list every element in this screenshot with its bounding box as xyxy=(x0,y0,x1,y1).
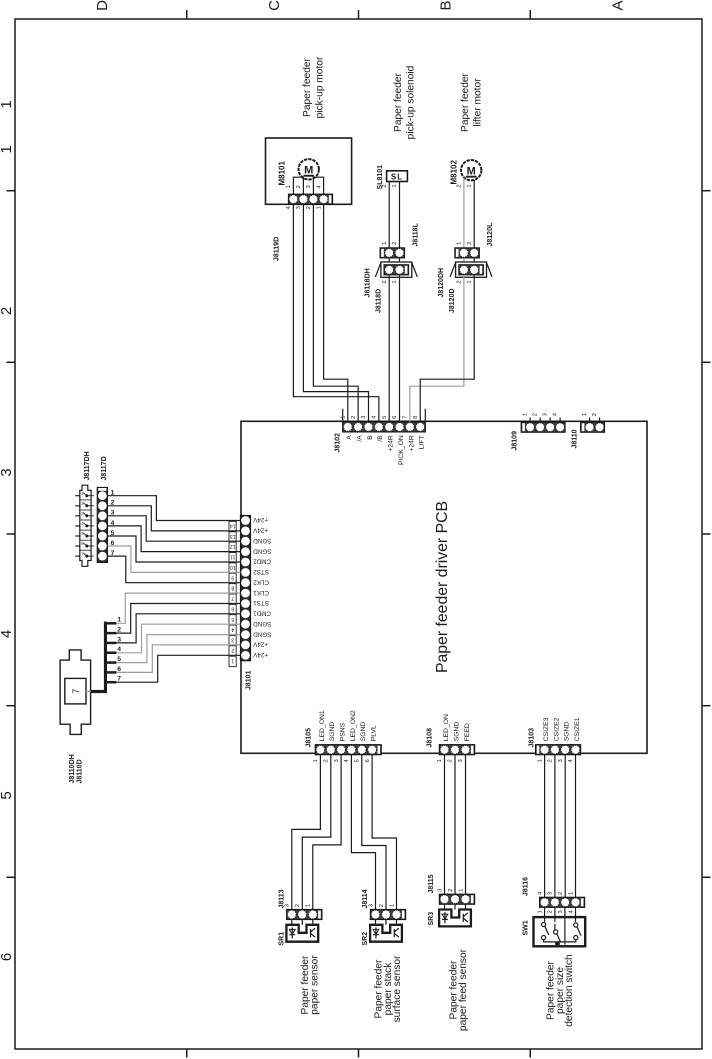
wire J8105 pin1 to sensor xyxy=(292,755,321,910)
wire J8120D pin1 to J8102 pin8 xyxy=(420,275,474,422)
svg-text:J8120DH: J8120DH xyxy=(438,268,445,298)
svg-text:SL: SL xyxy=(391,172,403,181)
svg-text:2: 2 xyxy=(117,627,121,634)
svg-text:1: 1 xyxy=(457,242,463,245)
connector J8110D terminal block xyxy=(104,622,117,694)
svg-text:+24R: +24R xyxy=(388,435,395,452)
wire J8110D pin2 to J8101 pin6 xyxy=(116,604,240,634)
svg-text:1: 1 xyxy=(117,617,121,624)
connector J8119D xyxy=(274,194,333,261)
svg-text:2: 2 xyxy=(392,242,398,245)
svg-text:SGND: SGND xyxy=(453,722,460,742)
svg-text:surface sensor: surface sensor xyxy=(392,955,403,1022)
wire J8117D pin1 to J8101 pin14 xyxy=(108,496,241,521)
svg-text:C: C xyxy=(266,0,283,11)
svg-text:6: 6 xyxy=(231,605,234,611)
svg-text:CSIZE2: CSIZE2 xyxy=(553,717,560,741)
connector J8113 xyxy=(278,889,322,919)
pin numbers J8118D 2-1 xyxy=(382,280,398,283)
svg-text:SGND: SGND xyxy=(564,722,571,742)
svg-text:1: 1 xyxy=(313,759,319,762)
paper deck unit box (7) J8110DH xyxy=(60,650,107,784)
svg-text:J8119D: J8119D xyxy=(274,237,281,261)
svg-text:+24V: +24V xyxy=(252,651,268,658)
svg-text:detection switch: detection switch xyxy=(564,954,575,1026)
svg-text:pick-up motor: pick-up motor xyxy=(315,56,326,118)
wire J8105 pin6 to sensor xyxy=(372,755,396,910)
svg-text:Paper feeder: Paper feeder xyxy=(393,72,404,132)
svg-text:J8118D: J8118D xyxy=(375,289,382,313)
connector J8105 xyxy=(306,728,382,755)
svg-text:3: 3 xyxy=(543,413,549,416)
svg-text:SR2: SR2 xyxy=(362,932,369,946)
svg-text:1: 1 xyxy=(306,904,312,907)
svg-text:2: 2 xyxy=(306,206,312,209)
pin numbers M8101 1-4 xyxy=(286,185,322,189)
wire J8110D pin3 to J8101 pin5 xyxy=(116,614,240,643)
svg-text:A: A xyxy=(346,435,353,440)
svg-text:8: 8 xyxy=(231,585,234,591)
svg-text:1: 1 xyxy=(523,413,529,416)
pin numbers J8117D 1-7 xyxy=(111,490,115,557)
svg-text:3: 3 xyxy=(558,759,564,762)
svg-text:lifter motor: lifter motor xyxy=(473,78,484,127)
svg-text:2: 2 xyxy=(457,280,463,283)
svg-text:3: 3 xyxy=(368,904,374,907)
svg-text:3: 3 xyxy=(296,206,302,209)
svg-text:M8102: M8102 xyxy=(450,159,459,184)
svg-text:STS1: STS1 xyxy=(253,599,269,606)
wire J8118L to J8118DH xyxy=(389,258,399,265)
connector J8118DH / J8118D xyxy=(365,262,418,313)
photo sensor SR2 xyxy=(362,920,402,946)
svg-text:2: 2 xyxy=(296,185,302,188)
svg-text:SR3: SR3 xyxy=(428,912,435,926)
wire SL8101 to J8118L xyxy=(389,182,399,248)
svg-text:CSIZE3: CSIZE3 xyxy=(543,717,550,741)
svg-text:SGND: SGND xyxy=(253,547,272,554)
svg-text:A: A xyxy=(609,0,626,10)
motor M8101 paper feeder pick-up motor xyxy=(266,138,352,204)
svg-text:3: 3 xyxy=(117,636,121,643)
wire J8108 pin3 to J8115 xyxy=(465,755,467,894)
svg-text:1: 1 xyxy=(389,904,395,907)
svg-text:1: 1 xyxy=(0,145,15,153)
svg-text:/B: /B xyxy=(377,435,384,442)
svg-text:5: 5 xyxy=(231,616,234,622)
svg-text:J8120D: J8120D xyxy=(449,288,456,313)
svg-text:1: 1 xyxy=(392,184,398,187)
svg-text:2: 2 xyxy=(351,416,357,419)
svg-text:CSIZE1: CSIZE1 xyxy=(574,717,581,741)
svg-text:6: 6 xyxy=(392,416,398,419)
pin numbers J8105 1-6 xyxy=(313,759,371,763)
svg-text:2: 2 xyxy=(0,307,15,315)
wire J8110D pin7 to J8101 pin1 xyxy=(116,655,240,682)
svg-text:5: 5 xyxy=(117,656,121,663)
wire J8117D pin4 to J8101 pin11 xyxy=(108,526,241,552)
svg-text:2: 2 xyxy=(448,889,454,892)
zone letters xyxy=(94,0,626,11)
svg-text:+24V: +24V xyxy=(252,516,268,523)
pin numbers J8118L 1-2 xyxy=(382,242,398,245)
svg-text:1: 1 xyxy=(341,416,347,419)
pin numbers J8116 bottom 1-4 xyxy=(537,910,574,914)
svg-text:2: 2 xyxy=(548,759,554,762)
svg-text:2: 2 xyxy=(231,647,234,653)
connector J8118L xyxy=(380,222,420,258)
svg-text:3: 3 xyxy=(334,759,340,762)
wire J8110D pin6 to J8101 pin2 xyxy=(116,645,240,673)
svg-text:+24R: +24R xyxy=(408,435,415,452)
connector J8114 xyxy=(362,889,406,919)
svg-text:10: 10 xyxy=(230,564,236,570)
svg-text:J8102: J8102 xyxy=(335,433,342,453)
svg-text:1: 1 xyxy=(286,185,292,188)
svg-text:5: 5 xyxy=(382,416,388,419)
svg-text:3: 3 xyxy=(231,637,234,643)
svg-text:7: 7 xyxy=(403,416,409,419)
wire J8118D to J8102 pins 5,6 xyxy=(389,275,399,422)
svg-text:D: D xyxy=(94,0,111,11)
pin numbers J8108 1-3 xyxy=(437,759,464,762)
photo sensor SR3 xyxy=(428,904,471,926)
svg-text:J8101: J8101 xyxy=(246,670,253,690)
svg-text:STS2: STS2 xyxy=(253,568,269,575)
wire M8101 winding brackets xyxy=(293,177,323,194)
pin numbers J8103 1-4 xyxy=(537,759,574,763)
pin numbers J8114 3-2-1 xyxy=(368,904,395,907)
svg-text:paper sensor: paper sensor xyxy=(309,955,320,1015)
svg-text:Paper feeder driver PCB: Paper feeder driver PCB xyxy=(434,501,451,673)
connector J8103 xyxy=(529,728,581,755)
svg-text:7: 7 xyxy=(71,689,81,694)
svg-text:5: 5 xyxy=(355,759,361,762)
connector J8110 xyxy=(572,422,605,448)
wire J8105 pin5 to sensor xyxy=(362,755,386,910)
svg-text:paper feed sensor: paper feed sensor xyxy=(458,948,469,1031)
label paper feeder paper feed sensor xyxy=(449,948,470,1031)
pin numbers SL8101 2-1 xyxy=(382,184,398,187)
svg-text:3: 3 xyxy=(306,185,312,188)
net labels J8103: CSIZE3 CSIZE2 SGND CSIZE1 xyxy=(543,717,581,741)
svg-text:13: 13 xyxy=(230,533,236,539)
svg-text:CLK2: CLK2 xyxy=(253,578,269,585)
wire J8110D pin1 to J8101 pin7 xyxy=(116,593,240,623)
wire J8105 pin3 to sensor xyxy=(313,755,341,910)
pin numbers J8109 1-4 xyxy=(523,412,560,422)
svg-text:5: 5 xyxy=(0,791,15,799)
svg-text:1: 1 xyxy=(392,280,398,283)
net labels J8105: LED_ON1 SGND PSNS LED_ON2 SGND PLVL xyxy=(319,710,378,741)
pin numbers M8102 2-1 xyxy=(457,184,473,187)
svg-text:4: 4 xyxy=(231,626,234,632)
svg-text:9: 9 xyxy=(231,574,234,580)
svg-text:J8108: J8108 xyxy=(427,728,434,748)
photo sensor SR1 xyxy=(278,920,318,946)
wire M8102 to J8120L xyxy=(464,178,474,248)
pin numbers J8115 3-2-1 xyxy=(437,889,464,892)
svg-text:12: 12 xyxy=(230,543,236,549)
svg-text:+24V: +24V xyxy=(252,641,268,648)
wire J8120D pin2 to J8102 pin7 (gray) xyxy=(410,275,464,422)
svg-text:3: 3 xyxy=(437,889,443,892)
svg-text:1: 1 xyxy=(537,759,543,762)
svg-text:M8101: M8101 xyxy=(278,160,287,185)
svg-text:2: 2 xyxy=(448,759,454,762)
svg-text:LED_ON: LED_ON xyxy=(443,714,450,741)
svg-text:6: 6 xyxy=(365,759,371,762)
wire J8103 pin3 to J8116 xyxy=(564,755,566,897)
svg-text:J8103: J8103 xyxy=(529,728,536,748)
svg-text:J8109: J8109 xyxy=(512,431,519,451)
connector J8120L xyxy=(455,222,494,258)
pin numbers J8110D 1-7 xyxy=(117,617,121,683)
svg-text:J8118L: J8118L xyxy=(413,222,420,246)
wire J8103 pin2 to J8116 xyxy=(554,755,556,897)
svg-text:2: 2 xyxy=(295,904,301,907)
svg-text:2: 2 xyxy=(382,280,388,283)
wire J8117D pin7 to J8101 pin8 xyxy=(108,556,241,583)
svg-text:CLK1: CLK1 xyxy=(253,589,269,596)
label paper feeder pick-up solenoid xyxy=(393,65,417,139)
svg-text:LED_ON1: LED_ON1 xyxy=(319,710,326,741)
pin numbers J8119D 4-3-2-1 xyxy=(286,205,322,209)
svg-text:1: 1 xyxy=(582,413,588,416)
svg-text:PSNS: PSNS xyxy=(340,722,347,741)
net labels J8102: A /A B /B +24R PICK_ON +24R LIFT xyxy=(346,435,425,465)
wire J8103 pin4 to J8116 xyxy=(575,755,577,897)
svg-text:PICK_ON: PICK_ON xyxy=(398,435,405,465)
connector J8117DH xyxy=(75,451,94,566)
svg-text:3: 3 xyxy=(361,416,367,419)
pin numbers J8116 top 4-3-2-1 xyxy=(537,891,574,895)
svg-text:SGND: SGND xyxy=(253,630,272,637)
svg-text:7: 7 xyxy=(117,676,121,683)
svg-text:SGND: SGND xyxy=(329,722,336,742)
pin numbers J8102 1-8 xyxy=(343,409,426,422)
wire J8119D pin1 to J8102 pin1 xyxy=(324,204,348,421)
wire J8103 pin1 to J8116 xyxy=(544,755,546,897)
svg-text:SGND: SGND xyxy=(253,620,272,627)
pin numbers J8120D 2-1 xyxy=(457,280,473,283)
wire J8119D pin2 to J8102 pin2 xyxy=(313,204,358,421)
svg-text:3: 3 xyxy=(285,904,291,907)
svg-text:Paper feeder: Paper feeder xyxy=(460,72,471,132)
svg-text:8: 8 xyxy=(413,416,419,419)
svg-text:3: 3 xyxy=(458,759,464,762)
svg-text:1: 1 xyxy=(458,889,464,892)
svg-text:SGND: SGND xyxy=(360,722,367,742)
svg-text:11: 11 xyxy=(230,554,235,560)
PCB Paper feeder driver PCB xyxy=(241,421,647,753)
svg-text:1: 1 xyxy=(231,657,234,663)
pin number strip J8101 14-1 xyxy=(229,521,236,666)
svg-text:3: 3 xyxy=(0,468,15,476)
wire J8117D pin6 to J8101 pin9 xyxy=(108,546,241,572)
svg-text:J8105: J8105 xyxy=(306,728,313,748)
svg-text:2: 2 xyxy=(467,242,473,245)
solenoid SL8101 paper feeder pick-up solenoid xyxy=(377,165,407,190)
svg-text:LED_ON2: LED_ON2 xyxy=(350,710,357,741)
label paper feeder pick-up motor xyxy=(302,56,326,118)
svg-text:2: 2 xyxy=(323,759,329,762)
svg-text:SW1: SW1 xyxy=(523,920,530,935)
svg-text:J8120L: J8120L xyxy=(487,222,494,246)
svg-text:J8110D: J8110D xyxy=(77,759,84,783)
svg-text:6: 6 xyxy=(117,666,121,673)
svg-text:2: 2 xyxy=(379,904,385,907)
connector J8117D xyxy=(97,456,108,562)
svg-text:J8118DH: J8118DH xyxy=(365,268,372,297)
label paper feeder paper sensor xyxy=(300,955,320,1015)
wire J8110D pin4 to J8101 pin4 xyxy=(116,624,240,653)
net labels J8108: LED_ON SGND FEED xyxy=(443,714,471,741)
svg-text:J8115: J8115 xyxy=(428,874,435,893)
svg-text:2: 2 xyxy=(548,910,554,913)
wire J8108 pin2 to J8115 xyxy=(454,755,456,894)
svg-text:2: 2 xyxy=(382,184,388,187)
svg-text:4: 4 xyxy=(117,646,121,653)
svg-text:1: 1 xyxy=(0,100,15,108)
svg-text:Paper feeder: Paper feeder xyxy=(302,57,313,117)
svg-text:3: 3 xyxy=(558,910,564,913)
pin numbers J8113 3-2-1 xyxy=(285,904,312,907)
svg-text:pick-up solenoid: pick-up solenoid xyxy=(406,65,417,139)
net labels J8101 xyxy=(252,516,271,658)
wire J8117D pin2 to J8101 pin13 xyxy=(108,506,241,531)
svg-text:SR1: SR1 xyxy=(278,932,285,946)
svg-text:J8110: J8110 xyxy=(572,429,579,448)
svg-text:1: 1 xyxy=(316,206,322,209)
wire J8120L to J8120DH xyxy=(464,258,474,265)
wire J8117D pin5 to J8101 pin10 xyxy=(108,536,241,562)
svg-text:J8117DH: J8117DH xyxy=(84,451,91,480)
svg-text:2: 2 xyxy=(533,413,539,416)
svg-text:B: B xyxy=(438,0,455,10)
svg-text:6: 6 xyxy=(0,953,15,961)
svg-text:/A: /A xyxy=(357,435,364,442)
connector J8102 xyxy=(335,422,426,453)
wire J8119D pin3 to J8102 pin3 xyxy=(303,204,368,421)
svg-text:7: 7 xyxy=(231,595,234,601)
wire J8119D pin4 to J8102 pin4 xyxy=(293,204,378,421)
label paper feeder paper stack surface sensor xyxy=(374,955,404,1022)
pin numbers J8120L 1-2 xyxy=(457,242,473,245)
connector J8108 xyxy=(427,728,475,755)
motor M8102 paper feeder lifter motor xyxy=(450,159,482,184)
svg-text:CMD1: CMD1 xyxy=(253,610,271,617)
svg-text:1: 1 xyxy=(537,910,543,913)
svg-text:J8117D: J8117D xyxy=(101,456,108,480)
wire J8105 pin2 to sensor xyxy=(302,755,331,910)
label paper feeder paper size detection switch xyxy=(546,954,576,1026)
wire J8110D pin5 to J8101 pin3 xyxy=(116,635,240,663)
svg-text:4: 4 xyxy=(0,630,15,638)
connector J8109 xyxy=(512,422,566,450)
connector J8101 xyxy=(240,515,252,690)
wire J8108 pin1 to J8115 xyxy=(444,755,446,894)
svg-text:1: 1 xyxy=(467,280,473,283)
wire J8117D pin3 to J8101 pin12 xyxy=(108,516,241,541)
svg-text:J8116: J8116 xyxy=(523,877,530,896)
connector J8116 xyxy=(523,877,585,908)
svg-text:PLVL: PLVL xyxy=(371,725,378,741)
svg-text:1: 1 xyxy=(382,242,388,245)
svg-text:FEED: FEED xyxy=(464,723,471,741)
svg-text:B: B xyxy=(367,435,374,440)
switch SW1 paper size detection switch xyxy=(523,907,586,946)
label paper feeder lifter motor xyxy=(460,72,484,132)
svg-text:+24V: +24V xyxy=(252,527,268,534)
svg-text:2: 2 xyxy=(558,892,564,895)
svg-text:J8110DH: J8110DH xyxy=(69,754,76,783)
svg-text:LIFT: LIFT xyxy=(419,435,426,449)
svg-text:3: 3 xyxy=(548,892,554,895)
svg-text:SGND: SGND xyxy=(253,537,272,544)
svg-text:CMD2: CMD2 xyxy=(253,558,271,565)
pin numbers J8110 1-2 xyxy=(582,413,599,422)
svg-text:1: 1 xyxy=(568,892,574,895)
svg-text:1: 1 xyxy=(437,759,443,762)
connector J8115 xyxy=(428,874,475,904)
svg-text:2: 2 xyxy=(592,413,598,416)
svg-text:1: 1 xyxy=(467,184,473,187)
zone numbers xyxy=(0,100,15,961)
connector J8120DH / J8120D xyxy=(438,262,492,313)
wire J8105 pin4 to sensor xyxy=(351,755,375,910)
svg-text:2: 2 xyxy=(457,184,463,187)
svg-text:14: 14 xyxy=(230,523,236,529)
